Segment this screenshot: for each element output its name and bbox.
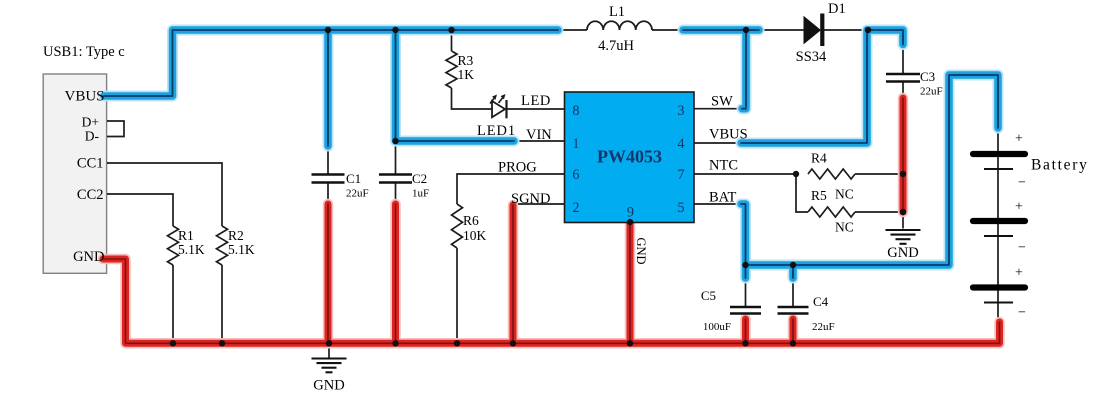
svg-text:22uF: 22uF [812,321,835,333]
svg-text:9: 9 [627,204,634,220]
svg-text:Battery: Battery [1031,157,1089,174]
svg-text:SGND: SGND [511,191,550,207]
svg-text:1uF: 1uF [412,188,429,200]
svg-text:−: − [1018,306,1026,321]
svg-text:SW: SW [711,94,733,110]
svg-text:7: 7 [677,167,684,183]
svg-text:4.7uH: 4.7uH [598,38,634,54]
svg-text:10K: 10K [463,228,487,243]
svg-text:5.1K: 5.1K [178,242,205,257]
svg-text:3: 3 [677,103,684,119]
svg-text:NC: NC [835,220,854,235]
svg-text:C4: C4 [813,294,829,309]
svg-text:NC: NC [835,187,854,202]
svg-text:22uF: 22uF [346,188,369,200]
svg-text:LED1: LED1 [477,123,516,139]
svg-text:−: − [1018,176,1026,191]
svg-text:GND: GND [73,249,104,265]
svg-text:R1: R1 [178,228,194,243]
svg-text:5: 5 [677,200,684,216]
svg-text:R4: R4 [811,151,827,166]
svg-text:+: + [1015,200,1023,215]
svg-text:C5: C5 [701,288,716,303]
svg-text:−: − [1018,241,1026,256]
svg-text:R3: R3 [458,53,474,68]
svg-text:D1: D1 [828,1,846,17]
svg-text:4: 4 [677,136,684,152]
svg-text:6: 6 [572,167,579,183]
svg-text:USB1: Type c: USB1: Type c [43,44,125,60]
svg-text:R5: R5 [811,188,827,203]
svg-text:VBUS: VBUS [64,89,104,105]
svg-text:R6: R6 [463,213,479,228]
svg-text:CC2: CC2 [77,187,104,203]
svg-text:GND: GND [313,378,344,394]
svg-text:100uF: 100uF [703,321,731,333]
svg-text:C2: C2 [412,171,427,186]
svg-text:+: + [1015,132,1023,147]
svg-text:C3: C3 [920,69,935,84]
svg-text:SS34: SS34 [796,49,827,65]
svg-text:D-: D- [85,129,100,144]
svg-text:PW4053: PW4053 [597,147,662,167]
svg-text:R2: R2 [228,228,244,243]
svg-text:VBUS: VBUS [709,127,748,143]
svg-text:NTC: NTC [709,158,738,174]
svg-text:5.1K: 5.1K [228,242,255,257]
svg-text:L1: L1 [609,4,625,20]
svg-text:GND: GND [634,237,648,264]
svg-text:1K: 1K [458,67,475,82]
svg-text:2: 2 [572,200,579,216]
svg-text:PROG: PROG [498,160,537,176]
svg-text:22uF: 22uF [920,86,943,98]
svg-text:1: 1 [572,136,579,152]
svg-text:BAT: BAT [709,190,737,206]
svg-text:CC1: CC1 [77,156,104,172]
svg-text:+: + [1015,266,1023,281]
svg-text:D+: D+ [82,115,99,130]
svg-text:LED: LED [521,93,551,109]
svg-text:8: 8 [572,103,579,119]
svg-text:GND: GND [887,245,918,261]
svg-text:C1: C1 [346,171,361,186]
svg-text:VIN: VIN [526,127,552,143]
